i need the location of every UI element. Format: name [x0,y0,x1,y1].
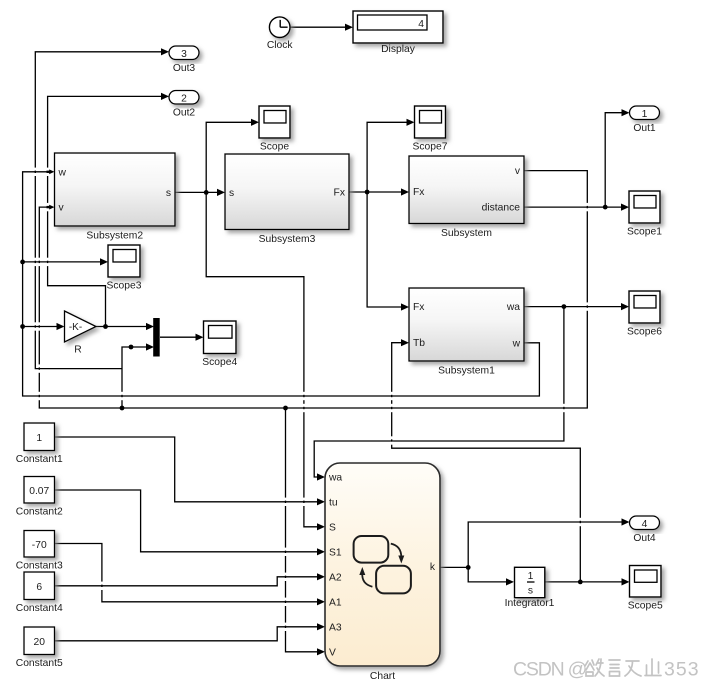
wire Fx-net main [349,191,402,193]
integrator Integrator1 [515,567,545,597]
svg-text:1: 1 [528,571,534,582]
wire Tb-net to Subsystem1 Tb [392,343,581,582]
junction Tb-net [578,580,583,585]
svg-text:Subsystem3: Subsystem3 [259,234,316,245]
svg-text:s: s [229,188,234,199]
chart state icon [354,536,389,563]
svg-text:A1: A1 [329,597,342,608]
wire Tb-net main [545,581,623,583]
svg-text:s: s [528,586,533,597]
display Display value 4 [353,11,443,43]
svg-text:k: k [430,562,436,573]
wire s-net to chart S [206,192,318,526]
wire s-net main [175,191,218,193]
svg-text:s: s [166,188,171,199]
wire crossing gaps [302,392,305,395]
svg-text:-K-: -K- [69,322,82,333]
svg-text:Display: Display [381,44,416,55]
svg-text:Integrator1: Integrator1 [505,598,555,609]
constant Constant3 value -70 [24,531,55,558]
wire v-net to Out3 [35,52,162,369]
junction v-net bus [120,406,125,411]
svg-text:Out3: Out3 [173,63,196,74]
svg-text:Fx: Fx [334,188,346,199]
junction wa-net [562,304,567,309]
outport Out3 [169,46,199,60]
svg-text:Constant1: Constant1 [16,454,63,465]
svg-text:wa: wa [328,473,342,484]
watermark CSDN [514,660,701,682]
svg-text:2: 2 [181,93,187,104]
svg-text:Scope6: Scope6 [627,327,662,338]
svg-text:w: w [512,338,521,349]
constant Constant2 value 0.07 [24,477,55,504]
outport Out1 [630,106,660,120]
svg-text:CSDN @: CSDN @ [513,659,587,681]
svg-text:Subsystem2: Subsystem2 [86,231,143,242]
constant Constant4 value 6 [24,572,55,600]
clock Clock [269,17,290,38]
junction k-net [466,565,471,570]
subsystem Subsystem1 [409,288,524,361]
svg-text:Clock: Clock [267,40,294,51]
svg-text:4: 4 [418,19,424,30]
svg-text:4: 4 [642,519,648,530]
scope Scope4 [204,321,237,354]
svg-text:Tb: Tb [413,338,425,349]
wire k-net to Out4 [468,522,622,567]
mux [153,318,160,357]
wire v-net to mux in2 [122,347,147,408]
svg-text:V: V [329,647,336,658]
wire distance-net main [524,206,622,208]
svg-text:Out1: Out1 [633,123,656,134]
svg-text:Scope7: Scope7 [413,142,448,153]
wire k-net to Integrator1 [468,567,507,582]
wire w-net main [23,172,540,396]
subsystem Subsystem [409,156,524,224]
junction s-net [204,190,209,195]
svg-text:Scope5: Scope5 [628,601,663,612]
wire Fx-net to Subsystem1 [367,192,402,307]
wire Constant4-A2 [55,577,319,586]
svg-text:tu: tu [329,497,338,508]
svg-text:Scope4: Scope4 [202,357,237,368]
wire distance-net to Out1 [605,113,622,207]
wire Constant3-A1 [55,544,319,602]
svg-text:Out2: Out2 [173,108,196,119]
outport Out2 [169,91,199,105]
svg-text:Scope3: Scope3 [107,281,142,292]
wire wa-net to chart wa [314,307,564,477]
svg-text:wa: wa [506,302,520,313]
scope Scope1 [629,191,660,223]
wire clock-display [290,26,346,28]
gain R [65,311,97,342]
svg-text:0.07: 0.07 [29,486,49,497]
svg-text:A3: A3 [329,622,342,633]
wire s-net to Scope [206,122,252,192]
junction v-net mux [129,345,134,350]
junction Fx-net [365,190,370,195]
svg-text:S1: S1 [329,547,342,558]
wire Constant2-S1 [55,490,319,552]
svg-text:A2: A2 [329,572,342,583]
scope Scope7 [415,106,446,138]
constant Constant1 value 1 [24,423,55,451]
wire w-net to Scope3 [23,261,101,263]
svg-text:Constant4: Constant4 [16,603,63,614]
svg-text:Scope1: Scope1 [627,227,662,238]
subsystem Subsystem3 [225,154,349,230]
wire v-net to chart V [286,408,319,652]
svg-text:Fx: Fx [413,187,425,198]
wire mux-Scope4 [160,336,197,338]
wire v-net main [39,171,587,408]
svg-text:Constant2: Constant2 [16,507,63,518]
subsystem Subsystem2 [55,153,176,226]
svg-text:6: 6 [36,582,42,593]
svg-text:-70: -70 [32,540,47,551]
scope Scope5 [630,566,662,598]
svg-text:v: v [515,166,521,177]
scope Scope3 [108,245,140,277]
svg-text:Chart: Chart [370,671,395,682]
svg-text:Fx: Fx [413,302,425,313]
svg-text:1: 1 [642,109,648,120]
svg-text:Constant3: Constant3 [16,561,63,572]
junction w-net Scope3 [20,260,25,265]
svg-text:distance: distance [482,203,521,214]
scope Scope6 [629,291,660,323]
svg-text:Out4: Out4 [633,533,656,544]
svg-text:Scope: Scope [260,142,289,153]
svg-text:Subsystem: Subsystem [441,228,492,239]
svg-text:S: S [329,522,336,533]
wire gain-net main [96,326,147,328]
junction gain-net [103,324,108,329]
scope Scope [259,106,290,138]
junction distance-net [603,205,608,210]
wire Constant5-A3 [55,627,319,641]
junction w-net gain [20,324,25,329]
svg-text:w: w [58,167,67,178]
svg-text:1: 1 [36,433,42,444]
svg-text:R: R [74,345,81,356]
svg-text:Subsystem1: Subsystem1 [438,366,495,377]
svg-text:v: v [59,203,65,214]
wire k-net main [440,566,468,568]
wire Fx-net to Scope7 [367,122,407,192]
outport Out4 [630,516,660,530]
constant Constant5 value 20 [24,627,55,655]
junction v-net chart [283,406,288,411]
chart Chart [325,463,440,666]
wire gain-net to Out2 [48,96,162,326]
wire Constant1-tu [55,437,319,502]
svg-text:20: 20 [34,637,46,648]
svg-text:3: 3 [181,49,187,60]
wire w-net to gain R [23,326,58,328]
svg-text:353: 353 [664,659,700,681]
wire wa-net main [524,306,622,308]
svg-text:Constant5: Constant5 [16,658,63,669]
